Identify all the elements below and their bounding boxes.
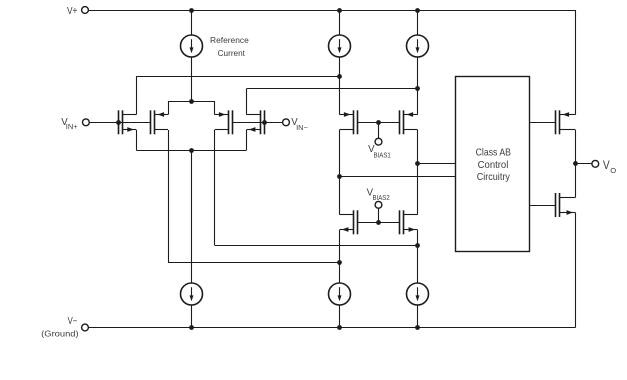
svg-text:(Ground): (Ground) [41,330,79,339]
node VBIAS1 terminal [368,138,391,159]
wire inner-left source up [168,101,170,115]
wire inner tail horizontal [168,101,215,103]
svg-text:BIAS1: BIAS1 [374,153,391,160]
wire bias1 stub to terminal [378,122,380,138]
node VO output terminal [592,158,616,175]
wire right vertical from V+ rail to Q9 source [575,10,577,115]
wire Q1 drain to left mirror [136,76,339,78]
svg-text:Control: Control [478,160,509,171]
svg-text:IN+: IN+ [66,124,78,131]
transistor Q7 bias2 left [339,210,357,234]
node junction left mirror drain [337,74,342,79]
svg-text:Circuitry: Circuitry [477,172,511,183]
wire VIN- gate wire [232,122,282,124]
transistor Q3 inner-right input [215,110,233,134]
node junction bias1 gates [376,120,381,125]
svg-text:O: O [610,166,616,175]
wire VIN+ gate wire [89,122,150,124]
svg-text:IN−: IN− [296,125,308,132]
node junction output [573,161,578,166]
node VIN+ input terminal [61,117,89,131]
wire right vertical from Q10 source to V- rail [575,213,577,328]
wire bottom V- rail [88,327,575,329]
node junction right output to class AB [415,161,420,166]
svg-text:Class AB: Class AB [476,147,511,158]
transistor Q1 outer-left input [119,110,137,134]
wire ref current to inner pair tail [191,57,193,101]
wire Q2 drain to left lower mirror [168,262,340,264]
wire left mirror vertical top [339,57,341,115]
svg-text:BIAS2: BIAS2 [373,195,390,202]
wire inner-right source up [214,101,216,115]
node VBIAS2 terminal [367,187,390,208]
node V- supply terminal [41,316,88,339]
label Reference Current [210,35,249,58]
node VIN- input terminal [283,117,308,132]
transistor Q6 cascode bias1 right [400,110,418,134]
wire Q9 drain down to output node [575,130,577,164]
wire outer tail down to current source [191,150,193,283]
wire output to VO terminal [576,163,592,165]
node junction top rail at right mirror [415,8,420,13]
wire bias2 stub from terminal [378,208,380,222]
wire bias2 gate bus [357,222,400,224]
wire Q3 drain down [214,130,216,245]
wire left vertical bias2 to current source [339,230,341,283]
node junction bottom rail middle [337,325,342,330]
current source I5 bottom middle [329,283,351,328]
wire right signal to class AB box [418,163,456,165]
current source I2 top middle-left [329,10,351,57]
wire Q4 drain up [246,89,248,115]
svg-text:V−: V− [68,316,78,327]
svg-text:Current: Current [218,48,246,58]
wire Q4 drain to right mirror [246,88,417,90]
node V+ supply terminal [67,6,88,17]
wire Q1 drain up [136,76,138,114]
wire Q10 drain up to output node [575,164,577,198]
node junction bias2 gates [376,220,381,225]
transistor Q2 inner-left input [151,110,169,134]
svg-text:V: V [603,158,610,172]
node junction top rail at left mirror [337,8,342,13]
svg-text:Reference: Reference [210,35,249,45]
node junction bottom rail left [189,325,194,330]
wire left signal to class AB box [340,176,456,178]
wire left vertical bias1 to bias2 [339,130,341,215]
wire right mirror vertical top [417,57,419,115]
current source I3 top middle-right [407,10,429,57]
node junction top rail at reference current [189,8,194,13]
wire bias1 gate bus [357,122,400,124]
transistor Q5 cascode bias1 left [339,110,357,134]
current source I4 bottom left [181,283,203,328]
wire top V+ rail [88,10,575,12]
node junction left lower mirror [337,260,342,265]
wire Q2 drain down [168,130,170,263]
svg-text:V+: V+ [67,6,78,17]
node junction bottom rail right [415,325,420,330]
wire outer tail horizontal [136,150,246,152]
node junction right lower mirror [415,243,420,248]
wire outer-right source down [246,130,248,150]
transistor Q8 bias2 right [400,210,418,234]
wire outer-left source down [136,130,138,150]
wire Q3 drain to right lower mirror [215,245,418,247]
current source I1 reference current [181,10,203,57]
wire class AB to Q9 gate [530,122,556,124]
wire right vertical bias1 to bias2 [417,130,419,215]
transistor Q4 outer-right input [246,110,264,134]
node junction Q1 gate [116,120,121,125]
block Class AB Control Circuitry [456,77,530,252]
node junction inner tail [189,99,194,104]
wire right vertical bias2 to current source [417,230,419,283]
transistor Q10 output NMOS [556,193,576,217]
current source I6 bottom right [407,283,429,328]
node junction outer tail [189,148,194,153]
wire class AB to Q10 gate [530,205,556,207]
node junction Q4 gate [262,120,267,125]
node junction right mirror drain [415,86,420,91]
transistor Q9 output PMOS [556,110,576,134]
node junction left output to class AB [337,174,342,179]
